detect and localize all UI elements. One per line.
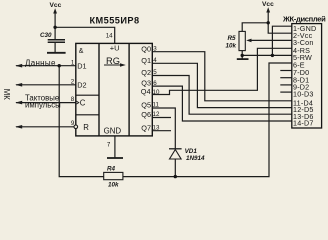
Vcc right arrowhead — [266, 7, 270, 12]
LCD display box — [292, 24, 322, 128]
svg-text:10-D3: 10-D3 — [293, 90, 314, 99]
RG arrow inside chip — [104, 64, 123, 66]
node dot VD1 rail — [174, 175, 177, 178]
svg-text:10k: 10k — [108, 181, 119, 187]
svg-text:9: 9 — [71, 120, 75, 127]
svg-text:14-D7: 14-D7 — [293, 119, 314, 128]
wire Q7 pin 13 stub — [152, 130, 171, 132]
node dot Vcc left / C30 — [53, 26, 56, 29]
arrowhead reset line — [15, 125, 22, 129]
wire clock line to pin 8 C — [16, 102, 76, 104]
svg-text:10k: 10k — [226, 43, 237, 50]
svg-text:Vcc: Vcc — [50, 2, 62, 9]
node dot Vcc right — [267, 21, 270, 24]
wire Q2 pin 5 to display 13-D6 — [152, 76, 291, 115]
wire display 8-D1 stub — [280, 77, 292, 79]
svg-text:5: 5 — [153, 69, 157, 76]
svg-text:C30: C30 — [40, 32, 52, 39]
display pin row labels — [293, 24, 316, 128]
svg-text:8: 8 — [71, 96, 75, 103]
svg-text:12: 12 — [153, 111, 160, 118]
svg-text:2: 2 — [71, 78, 75, 85]
wire display 2-Vcc left and up — [268, 23, 292, 33]
wire C30 top lead — [54, 27, 56, 39]
svg-text:C: C — [80, 98, 86, 107]
arrowhead R5 wiper pointing left — [246, 39, 251, 43]
svg-text:Q7: Q7 — [141, 123, 151, 132]
wire Q6 pin 12 stub — [152, 117, 171, 119]
R input inversion bubble — [74, 125, 78, 129]
wire R4 right to E rail and up to display 6-E — [123, 63, 292, 177]
svg-text:Q0: Q0 — [141, 44, 151, 53]
wire display 10-D3 stub — [280, 91, 292, 93]
ground bar below C30 — [47, 52, 66, 54]
wire diode anode to rail — [174, 159, 176, 177]
wire C30 bottom lead — [54, 42, 56, 52]
wire Vcc right to R5 top — [242, 23, 268, 32]
wire Vcc left rail to pin 14 — [55, 27, 115, 43]
svg-text:Vcc: Vcc — [262, 1, 274, 8]
capacitor C30 plates — [48, 40, 65, 43]
svg-text:10: 10 — [153, 89, 160, 96]
wire Q4 pin 10 to display 4-RS — [152, 48, 291, 94]
svg-text:3: 3 — [153, 45, 157, 52]
svg-text:11: 11 — [153, 102, 160, 109]
wire Q5 pin 11 to diode VD1 — [152, 108, 175, 149]
node dot R5 bottom — [241, 54, 244, 57]
wire Vcc right vertical — [267, 11, 269, 23]
resistor R5 — [239, 31, 245, 50]
svg-text:R5: R5 — [228, 35, 237, 42]
arrowhead D2 line — [15, 83, 22, 87]
wire data line to pin 1 D1 — [16, 65, 76, 67]
arrowhead data line — [15, 64, 22, 68]
wire Q3 pin 6 to display 14-D7 — [152, 86, 291, 121]
svg-text:Q1: Q1 — [141, 56, 151, 65]
svg-text:D2: D2 — [77, 81, 86, 90]
IC KM555IR8 box — [76, 43, 153, 135]
svg-text:1N914: 1N914 — [186, 155, 205, 162]
svg-text:RG: RG — [106, 56, 120, 66]
wire display 9-D2 stub — [280, 84, 292, 86]
svg-text:Q2: Q2 — [141, 68, 151, 77]
ground bar below chip pin 7 — [107, 157, 123, 159]
svg-text:Q6: Q6 — [141, 110, 151, 119]
wire display 3-Con to R5 wiper — [250, 39, 292, 41]
svg-text:1: 1 — [71, 59, 75, 66]
svg-text:14: 14 — [106, 33, 113, 40]
svg-text:R4: R4 — [107, 165, 116, 172]
wire display 1-GND left and down — [272, 26, 291, 55]
wire Vcc left vertical — [54, 12, 56, 27]
wire data tap down to R4 — [59, 66, 103, 177]
svg-text:Данные: Данные — [25, 58, 56, 67]
C input dynamic triangle — [76, 101, 79, 105]
resistor R4 — [104, 172, 123, 179]
svg-text:импульсы: импульсы — [25, 101, 61, 110]
svg-text:&: & — [79, 48, 84, 55]
svg-text:КМ555ИР8: КМ555ИР8 — [90, 16, 140, 26]
arrowhead clock line — [15, 101, 22, 105]
svg-text:D1: D1 — [77, 61, 86, 70]
svg-text:+U: +U — [110, 43, 120, 52]
svg-text:R: R — [83, 123, 89, 132]
svg-text:7: 7 — [107, 142, 111, 149]
wire chip pin 7 to ground — [114, 136, 116, 158]
Vcc left arrowhead — [53, 8, 57, 13]
svg-text:МК: МК — [2, 89, 11, 100]
svg-text:6: 6 — [153, 80, 157, 87]
node dot GND RW join — [271, 54, 274, 57]
ground bar below R5 — [237, 58, 249, 60]
wire R5 bottom lead — [241, 51, 243, 59]
wire reset line to pin 9 R — [16, 126, 74, 128]
svg-text:Q4: Q4 — [141, 87, 151, 96]
wire to pin 2 D2 — [16, 84, 76, 86]
svg-text:GND: GND — [104, 126, 122, 135]
node dot data tap — [58, 64, 61, 67]
wire display 5-RW to R5 bottom — [242, 54, 292, 56]
wire Q1 pin 4 to display 12-D5 — [152, 63, 291, 107]
svg-text:4: 4 — [153, 57, 157, 64]
svg-text:Q5: Q5 — [141, 101, 151, 110]
wire display 7-D0 stub — [280, 70, 292, 72]
wire Q0 pin 3 to display 11-D4 — [152, 52, 291, 101]
diode VD1 — [169, 149, 182, 159]
svg-text:13: 13 — [153, 124, 160, 131]
svg-text:ЖК-дисплей: ЖК-дисплей — [282, 14, 326, 23]
